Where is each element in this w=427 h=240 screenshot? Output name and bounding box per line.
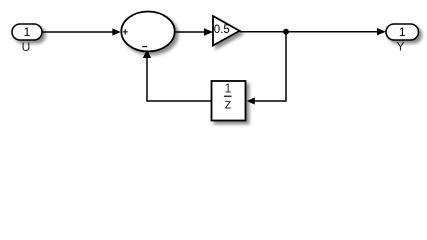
svg-text:1: 1	[24, 25, 31, 39]
sum block S1	[121, 12, 174, 52]
svg-text:Y: Y	[396, 40, 404, 54]
outport block Y (stadium "1")	[386, 24, 419, 40]
sign -	[142, 46, 147, 48]
junction node	[283, 29, 289, 35]
sign +	[123, 29, 128, 34]
wire Sum to Gain	[175, 28, 213, 35]
svg-text:1: 1	[399, 25, 406, 39]
svg-text:U: U	[22, 40, 31, 54]
wire Gain to Outport	[240, 28, 386, 35]
label Y	[396, 40, 404, 54]
unit delay block D1 (1/z)	[212, 81, 246, 121]
svg-text:1: 1	[225, 82, 232, 96]
wire Unit Delay to Sum (feedback)	[143, 50, 212, 101]
svg-text:z: z	[225, 95, 232, 111]
inport block U (stadium "1")	[12, 24, 42, 40]
gain block G1 (triangle 0.5)	[213, 16, 240, 46]
wire U to Sum	[42, 28, 121, 35]
label U	[22, 40, 31, 54]
svg-text:0.5: 0.5	[214, 24, 230, 36]
wire junction down to Unit Delay	[247, 32, 286, 105]
